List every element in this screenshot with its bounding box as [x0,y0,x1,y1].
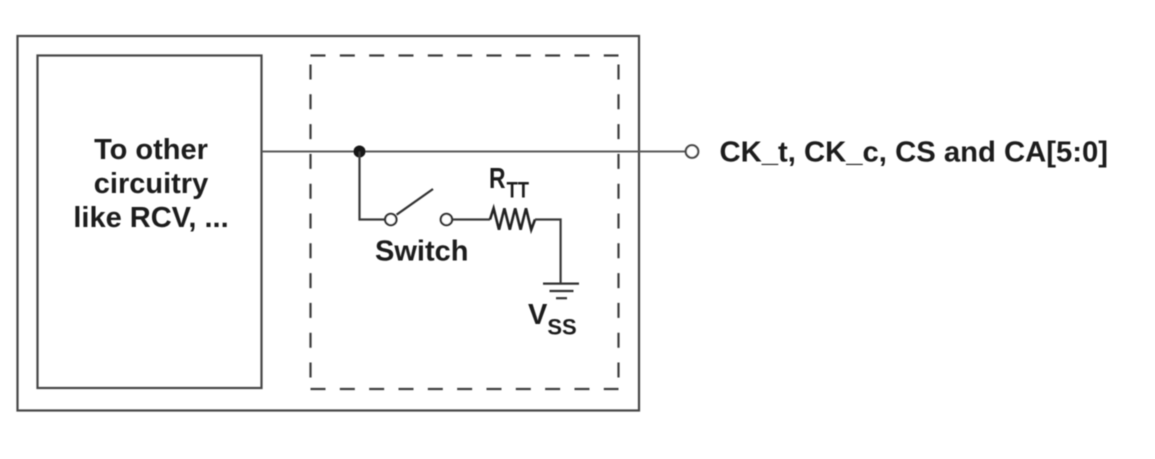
switch lever [397,189,433,215]
svg-text:circuitry: circuitry [94,168,208,200]
svg-text:like RCV, ...: like RCV, ... [73,202,228,234]
switch throw contact (right circle) [441,214,452,225]
wire: resistor to ground [535,220,561,284]
dashed ODT block box [311,56,619,390]
inner block "To other circuitry" box [38,56,262,389]
terminal: open circle [686,145,699,158]
svg-text:TT: TT [507,178,530,203]
node: junction dot [354,146,366,158]
outer enclosure box [18,36,640,411]
wire: switch to resistor [452,218,490,220]
svg-text:Switch: Switch [375,236,468,268]
ground symbol [543,283,579,285]
wire: main horizontal net [262,151,686,153]
resistor RTT zigzag [490,208,535,229]
svg-text:R: R [489,163,506,195]
svg-text:CK_t, CK_c, CS and CA[5:0]: CK_t, CK_c, CS and CA[5:0] [720,137,1109,169]
switch pole contact (left circle) [385,214,396,225]
wire: junction down to switch [360,152,385,220]
svg-text:To other: To other [94,134,208,166]
